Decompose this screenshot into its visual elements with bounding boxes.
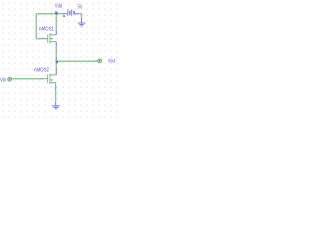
wire output node to drain nMOS2: [55, 63, 57, 68]
ground GND2: [52, 102, 60, 109]
transistor nMOS2 gate pin: [40, 78, 43, 80]
transistor nMOS2 drain pin: [55, 68, 57, 75]
Vout port circle: [98, 59, 102, 63]
svg-text:5V: 5V: [78, 4, 83, 10]
svg-text:Vdd: Vdd: [55, 4, 62, 10]
transistor nMOS1 gate pin: [41, 38, 45, 40]
transistor nMOS1 drain pin: [55, 30, 57, 35]
svg-text:Vout: Vout: [108, 58, 116, 64]
wire Vin to gate nMOS2: [12, 78, 41, 80]
Vout port pin: [95, 60, 98, 62]
transistor nMOS1: [45, 33, 57, 43]
svg-text:nMOS2: nMOS2: [34, 67, 49, 73]
transistor nMOS1 bulk arrow: [50, 38, 52, 40]
transistor nMOS2 source pin: [55, 86, 57, 90]
node output pin stub: [55, 58, 57, 61]
ground GND1: [78, 18, 86, 26]
wire top rail Vdd: [36, 13, 62, 15]
wire battery to ground: [79, 14, 81, 19]
node output junction dot: [56, 61, 58, 64]
battery V1: [62, 9, 79, 16]
svg-text:Vin: Vin: [0, 78, 6, 84]
wire source nMOS1 to output node: [55, 46, 57, 58]
transistor nMOS2 bulk arrow: [50, 79, 52, 81]
battery V1 plus mark: [63, 15, 65, 17]
wire output to Vout port: [58, 60, 95, 62]
wire drain nMOS1 to Vdd rail: [55, 14, 57, 30]
transistor nMOS1 source pin: [55, 42, 57, 47]
wire gate loop of nMOS1: [36, 14, 40, 39]
wire source nMOS2 to ground: [55, 90, 57, 102]
svg-text:nMOS1: nMOS1: [39, 26, 54, 32]
node Vdd junction dot: [55, 12, 58, 15]
Vin port circle: [8, 77, 12, 81]
transistor nMOS2: [43, 74, 56, 87]
